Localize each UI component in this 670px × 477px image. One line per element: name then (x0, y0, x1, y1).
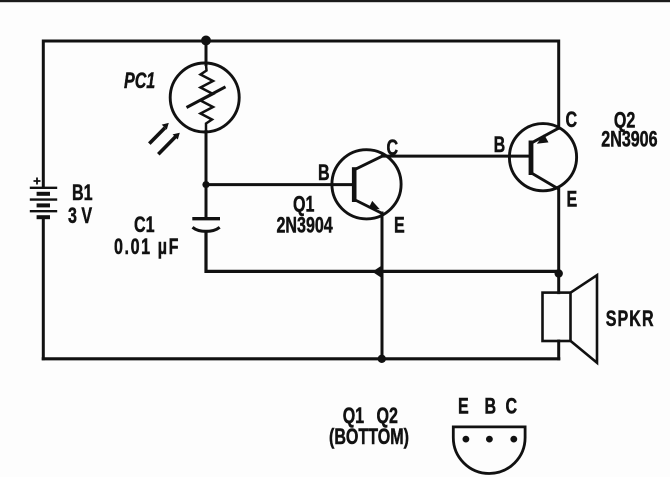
svg-text:B: B (485, 395, 497, 419)
svg-text:(BOTTOM): (BOTTOM) (329, 426, 409, 450)
svg-text:B: B (494, 134, 506, 158)
svg-text:2N3906: 2N3906 (601, 128, 657, 152)
svg-text:C: C (506, 395, 518, 419)
svg-text:C1: C1 (134, 214, 155, 238)
svg-text:E: E (567, 188, 578, 212)
svg-text:0.01 µF: 0.01 µF (114, 236, 180, 260)
svg-text:E: E (394, 214, 405, 238)
svg-text:3 V: 3 V (68, 205, 92, 229)
svg-text:C: C (566, 109, 578, 133)
svg-text:2N3904: 2N3904 (277, 214, 333, 238)
svg-text:E: E (458, 395, 469, 419)
svg-text:B1: B1 (72, 182, 93, 206)
svg-text:C: C (387, 137, 399, 161)
svg-text:PC1: PC1 (124, 70, 155, 94)
svg-text:SPKR: SPKR (606, 308, 655, 332)
svg-text:B: B (318, 162, 330, 186)
